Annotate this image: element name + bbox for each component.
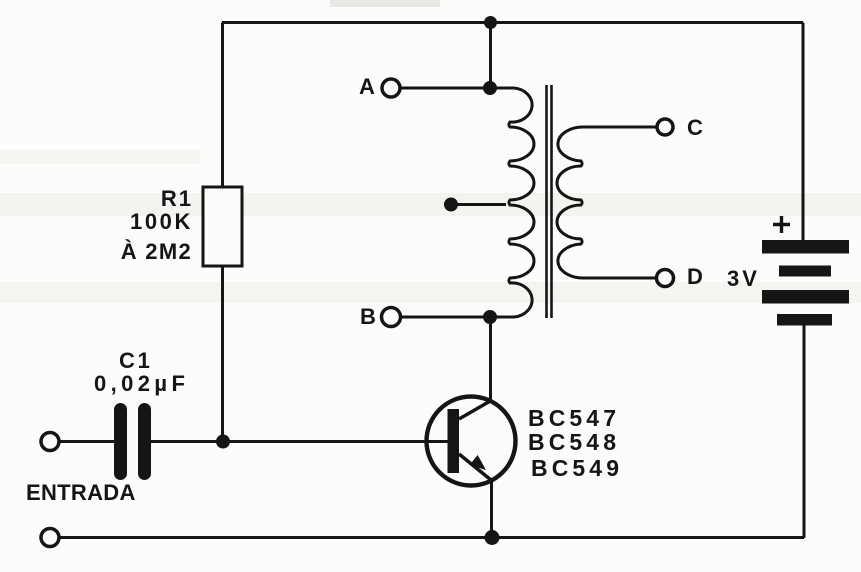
svg-text:C1: C1 — [119, 348, 153, 373]
svg-text:C: C — [687, 115, 706, 140]
svg-text:BC547: BC547 — [528, 405, 620, 431]
svg-text:3V: 3V — [727, 266, 760, 291]
svg-text:R1: R1 — [161, 186, 193, 211]
svg-text:A: A — [359, 74, 378, 99]
svg-text:0,02µF: 0,02µF — [94, 371, 189, 396]
svg-text:BC549: BC549 — [531, 455, 623, 481]
svg-text:ENTRADA: ENTRADA — [26, 480, 136, 505]
svg-text:BC548: BC548 — [528, 429, 620, 455]
svg-text:D: D — [687, 264, 706, 289]
svg-text:100K: 100K — [130, 209, 193, 234]
svg-text:À 2M2: À 2M2 — [121, 239, 192, 264]
svg-text:B: B — [360, 304, 379, 329]
